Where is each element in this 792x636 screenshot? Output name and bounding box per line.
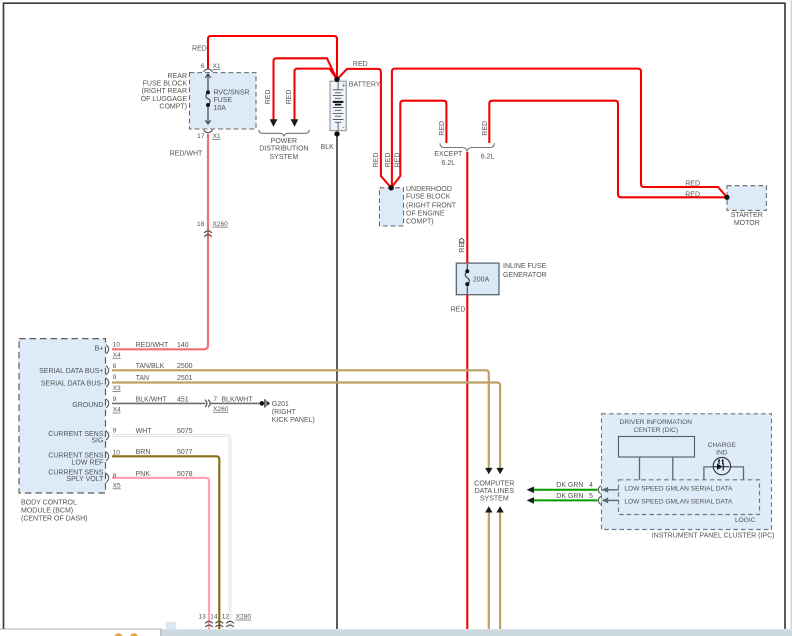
svg-text:RED: RED — [685, 180, 700, 187]
svg-text:X280: X280 — [236, 614, 252, 621]
fuse element 200A inline — [465, 264, 469, 294]
junction node battery negative — [334, 131, 339, 136]
svg-text:OF ENGINE: OF ENGINE — [406, 211, 445, 218]
inline fuse generator box — [456, 263, 499, 295]
svg-text:RED: RED — [439, 121, 446, 136]
svg-text:DISTRIBUTION: DISTRIBUTION — [259, 146, 308, 153]
wire TAN serial data bus- — [112, 383, 500, 469]
starter motor box — [727, 186, 766, 211]
connector arc IPC pin 4 — [598, 486, 601, 494]
svg-text:X5: X5 — [113, 483, 121, 490]
svg-text:5075: 5075 — [177, 428, 193, 435]
battery internals — [333, 81, 344, 131]
svg-text:TAN/BLK: TAN/BLK — [136, 363, 165, 370]
BCM pin bracket current sens low ref — [106, 452, 109, 461]
small marker near inline fuse wire — [460, 238, 464, 243]
arrowhead DK GRN 4 — [527, 487, 534, 494]
svg-text:EXCEPT: EXCEPT — [434, 151, 463, 158]
wire IPC internal gmlan 4 — [607, 489, 619, 491]
svg-text:RED: RED — [373, 153, 380, 168]
connector X280 arcs pin 14 — [215, 621, 223, 627]
wire DIC lead left — [639, 457, 641, 480]
wire BLK/WHT X260 to G201 — [211, 402, 260, 404]
orange dot icon 1 — [114, 633, 122, 636]
wire TAN lower to bottom — [499, 512, 501, 629]
svg-text:G201: G201 — [272, 401, 289, 408]
svg-text:14: 14 — [210, 614, 218, 621]
svg-text:TAN: TAN — [136, 375, 149, 382]
arrowhead IPC internal 5 — [601, 498, 608, 504]
svg-text:INSTRUMENT PANEL CLUSTER (IPC): INSTRUMENT PANEL CLUSTER (IPC) — [652, 532, 775, 539]
svg-text:8: 8 — [113, 473, 117, 480]
wire RED inline fuse to bottom — [466, 295, 468, 629]
boxes layer — [19, 73, 772, 530]
svg-text:X4: X4 — [113, 407, 121, 414]
svg-text:RED: RED — [353, 61, 368, 68]
svg-text:MOTOR: MOTOR — [734, 220, 760, 227]
svg-text:X3: X3 — [113, 385, 121, 392]
arrowhead serial data up 1 — [485, 506, 492, 512]
svg-text:OF LUGGAGE: OF LUGGAGE — [141, 96, 188, 103]
svg-text:BRN: BRN — [136, 449, 151, 456]
junction node starter motor — [724, 195, 729, 200]
svg-text:12: 12 — [222, 614, 230, 621]
svg-text:KICK PANEL): KICK PANEL) — [272, 417, 315, 424]
underhood fuse block box — [380, 188, 404, 226]
svg-text:BLK/WHT: BLK/WHT — [221, 396, 253, 403]
connector X280 arcs pin 13 — [205, 621, 213, 627]
connector X1 top arc — [204, 69, 213, 72]
svg-text:LOW REF: LOW REF — [72, 459, 104, 466]
svg-text:SERIAL DATA BUS+: SERIAL DATA BUS+ — [39, 368, 103, 375]
ground G201 symbol — [260, 401, 265, 406]
svg-text:STARTER: STARTER — [731, 212, 763, 219]
junction node battery positive — [334, 77, 339, 82]
svg-text:9: 9 — [113, 396, 117, 403]
BCM box — [19, 339, 106, 493]
arrowhead power distribution 2 — [291, 119, 299, 127]
svg-text:RED: RED — [286, 90, 293, 105]
wire PNK current sens sply volt — [112, 478, 209, 629]
svg-text:RED/WHT: RED/WHT — [170, 150, 203, 157]
svg-text:5078: 5078 — [177, 471, 193, 478]
svg-text:MODULE (BCM): MODULE (BCM) — [21, 508, 73, 515]
svg-text:FUSE: FUSE — [214, 97, 233, 104]
svg-text:10: 10 — [113, 342, 121, 349]
wire DIC lead right — [672, 457, 674, 480]
svg-text:DRIVER INFORMATION: DRIVER INFORMATION — [620, 419, 693, 426]
BCM pin bracket current sens sig — [106, 431, 109, 440]
LOGIC box — [619, 480, 760, 515]
connector X260 arcs on BLK/WHT ground wire — [205, 400, 210, 407]
svg-text:5: 5 — [589, 493, 593, 500]
orange dot icon 2 — [130, 633, 138, 636]
svg-text:POWER: POWER — [271, 138, 297, 145]
wire WHT current sens sig core — [112, 436, 230, 630]
svg-text:RED: RED — [482, 121, 489, 136]
svg-text:RED: RED — [459, 238, 466, 253]
wire RED battery to power distribution 1 — [274, 58, 338, 125]
wire RED/WHT rear fuse block to BCM B+ — [112, 134, 208, 349]
BCM pin bracket current sens sply volt — [106, 473, 109, 482]
scrollbar end cap — [166, 622, 176, 630]
svg-text:LOW SPEED GMLAN SERIAL DATA: LOW SPEED GMLAN SERIAL DATA — [624, 498, 733, 505]
svg-text:X4: X4 — [113, 352, 121, 359]
svg-text:COMPT): COMPT) — [159, 104, 187, 111]
wire RED battery to underhood fuse block — [337, 69, 391, 188]
svg-text:6: 6 — [201, 63, 205, 70]
svg-text:DK GRN: DK GRN — [556, 493, 583, 500]
BCM pin bracket serial data bus- — [106, 378, 109, 387]
svg-text:FUSE BLOCK: FUSE BLOCK — [143, 81, 188, 88]
wire RED brace to inline fuse — [466, 152, 468, 263]
BCM pin bracket ground — [106, 399, 109, 408]
svg-text:SYSTEM: SYSTEM — [480, 496, 509, 503]
svg-text:13: 13 — [198, 614, 206, 621]
svg-text:DK GRN: DK GRN — [556, 482, 583, 489]
arrowhead serial data up 2 — [496, 506, 503, 512]
svg-text:8: 8 — [113, 363, 117, 370]
svg-text:GENERATOR: GENERATOR — [503, 272, 547, 279]
svg-text:X260: X260 — [213, 406, 229, 413]
svg-text:9: 9 — [113, 427, 117, 434]
svg-text:FUSE BLOCK: FUSE BLOCK — [406, 194, 451, 201]
svg-text:B+: B+ — [95, 346, 104, 353]
svg-text:6.2L: 6.2L — [441, 160, 455, 167]
wire TAN/BLK serial data bus+ — [112, 370, 489, 468]
svg-text:2500: 2500 — [177, 363, 193, 370]
svg-text:RED: RED — [385, 153, 392, 168]
fuse element RVC/SNSR — [205, 74, 210, 124]
arrowhead serial data down 1 — [485, 468, 492, 474]
svg-text:200A: 200A — [473, 277, 490, 284]
wires layer — [112, 36, 744, 629]
svg-text:COMPUTER: COMPUTER — [474, 481, 514, 488]
connector X1 bottom arc — [204, 130, 213, 133]
svg-text:SPLY VOLT: SPLY VOLT — [66, 476, 104, 483]
svg-text:SYSTEM: SYSTEM — [270, 154, 299, 161]
svg-text:RED/WHT: RED/WHT — [136, 342, 169, 349]
svg-text:CENTER (DIC): CENTER (DIC) — [633, 427, 678, 434]
svg-text:10A: 10A — [214, 105, 227, 112]
svg-text:X1: X1 — [213, 63, 221, 70]
svg-text:4: 4 — [589, 482, 593, 489]
svg-text:RED: RED — [192, 46, 207, 53]
svg-text:10: 10 — [113, 450, 121, 457]
svg-text:X1: X1 — [213, 133, 221, 140]
battery box — [330, 81, 346, 131]
wire RED underhood fuse block to EXCEPT 6.2L branch — [391, 101, 446, 188]
wire TAN/BLK lower to bottom — [488, 512, 490, 629]
connector arc IPC pin 5 — [598, 496, 601, 504]
svg-text:INLINE FUSE: INLINE FUSE — [503, 263, 547, 270]
svg-text:RED: RED — [265, 90, 272, 105]
BCM pin bracket serial data bus+ — [106, 366, 109, 375]
rear fuse block box — [190, 73, 257, 129]
svg-text:RED: RED — [451, 307, 466, 314]
svg-text:2501: 2501 — [177, 375, 193, 382]
svg-text:451: 451 — [177, 396, 189, 403]
brace except 6.2L / 6.2L merge — [440, 143, 494, 151]
svg-text:+: + — [342, 83, 346, 90]
svg-text:BLK/WHT: BLK/WHT — [136, 396, 168, 403]
junction node underhood fuse block — [389, 185, 394, 190]
svg-text:COMPT): COMPT) — [406, 218, 434, 225]
svg-text:7: 7 — [213, 396, 217, 403]
svg-text:BATTERY: BATTERY — [349, 81, 381, 88]
symbols layer — [106, 69, 731, 627]
wire WHT current sens sig outline — [112, 436, 230, 630]
wire DK GRN low speed gmlan 4 — [534, 489, 598, 491]
wire BRN current sens low ref — [112, 456, 219, 629]
svg-text:BLK: BLK — [321, 144, 335, 151]
svg-text:REAR: REAR — [168, 73, 187, 80]
bottom bar area — [0, 622, 792, 636]
wire RED underhood fuse block to starter motor — [392, 69, 727, 198]
wire RED battery to power distribution 2 — [295, 69, 338, 126]
svg-text:RVC/SNSR: RVC/SNSR — [214, 89, 250, 96]
svg-text:SIG: SIG — [91, 437, 103, 444]
connector X280 arcs pin 12 — [226, 621, 234, 627]
wire BLK battery ground to bottom — [336, 134, 338, 629]
wire RED rear fuse block to battery (top) — [208, 36, 337, 78]
svg-text:DATA LINES: DATA LINES — [475, 488, 515, 495]
svg-text:X260: X260 — [212, 221, 228, 228]
connector X260 inline arcs on RED/WHT wire — [204, 231, 212, 237]
wire IPC internal gmlan 5 — [607, 499, 619, 501]
bottom grey toolbar — [161, 629, 792, 636]
arrowhead serial data down 2 — [496, 468, 503, 474]
arrowhead DK GRN 5 — [527, 497, 534, 504]
wire BLK/WHT ground to X260 — [112, 402, 206, 404]
svg-text:(CENTER OF DASH): (CENTER OF DASH) — [21, 516, 88, 523]
wire RED 6.2L branch from starter motor — [489, 101, 727, 198]
arrowhead IPC internal 4 — [601, 487, 608, 493]
svg-text:6.2L: 6.2L — [481, 154, 495, 161]
svg-text:LOW SPEED GMLAN SERIAL DATA: LOW SPEED GMLAN SERIAL DATA — [624, 486, 733, 493]
svg-text:RED: RED — [395, 153, 402, 168]
svg-text:9: 9 — [113, 374, 117, 381]
charge indicator circle — [713, 457, 730, 474]
wire DK GRN low speed gmlan 5 — [534, 499, 598, 501]
BCM pin bracket B+ — [106, 345, 109, 354]
DIC box — [619, 437, 695, 458]
window right edge — [790, 0, 792, 629]
brace power distribution system — [259, 130, 310, 137]
svg-text:RED: RED — [685, 191, 700, 198]
svg-text:IND: IND — [716, 449, 728, 456]
svg-text:(RIGHT FRONT: (RIGHT FRONT — [406, 202, 457, 209]
svg-text:17: 17 — [197, 133, 205, 140]
svg-text:(RIGHT: (RIGHT — [272, 409, 297, 416]
svg-text:WHT: WHT — [136, 428, 153, 435]
charge indicator LED symbol — [717, 463, 723, 470]
svg-text:140: 140 — [177, 342, 189, 349]
svg-text:5077: 5077 — [177, 449, 193, 456]
bottom left white panel edge — [0, 629, 161, 636]
svg-text:SERIAL DATA BUS-: SERIAL DATA BUS- — [41, 380, 104, 387]
svg-text:CHARGE: CHARGE — [708, 442, 737, 449]
svg-text:PNK: PNK — [136, 471, 151, 478]
svg-text:18: 18 — [197, 221, 205, 228]
svg-text:LOGIC: LOGIC — [735, 517, 756, 524]
arrowhead power distribution 1 — [270, 119, 278, 127]
svg-text:(RIGHT REAR: (RIGHT REAR — [142, 88, 187, 95]
svg-text:UNDERHOOD: UNDERHOOD — [406, 186, 452, 193]
wire charge indicator circuit — [704, 467, 744, 480]
svg-text:GROUND: GROUND — [72, 402, 103, 409]
IPC box — [602, 414, 772, 530]
svg-text:BODY CONTROL: BODY CONTROL — [21, 500, 77, 507]
